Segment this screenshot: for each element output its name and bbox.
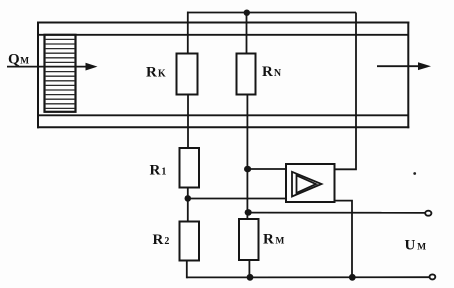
wire R1 bottom lead	[187, 188, 189, 199]
wire amp feedback to bridge top	[335, 13, 357, 170]
duct left wall	[37, 22, 39, 129]
flow-in arrow	[7, 63, 98, 71]
resistor RM	[239, 219, 259, 260]
svg-text:QM: QM	[8, 52, 29, 68]
duct inner bottom wall	[38, 114, 408, 116]
wire RN bottom to RM	[246, 95, 248, 220]
ink speck	[413, 172, 416, 175]
flow-out arrow	[377, 62, 431, 70]
resistor R2	[180, 222, 200, 261]
svg-text:RK: RK	[146, 65, 166, 81]
node bridge-top / RN	[244, 10, 250, 16]
resistor R1	[180, 148, 200, 188]
svg-text:R1: R1	[150, 163, 167, 179]
svg-text:UM: UM	[405, 238, 427, 254]
wire bridge top rail	[187, 12, 356, 14]
node RM bottom	[247, 274, 254, 281]
node RM top / output tap	[245, 209, 252, 216]
duct outer top wall	[37, 22, 409, 24]
flow screen (hatched grid)	[45, 35, 76, 112]
resistor RN	[237, 54, 256, 95]
wire amp upper input	[248, 168, 286, 170]
wire R2 top lead	[187, 199, 189, 222]
duct right wall	[407, 22, 409, 129]
svg-text:RN: RN	[262, 64, 282, 80]
node amp output to bottom rail	[349, 274, 356, 281]
wire bottom rail	[187, 276, 430, 278]
resistor RK	[177, 54, 198, 95]
terminal lower output	[430, 274, 436, 279]
node R1-R2 junction	[185, 195, 192, 202]
terminal upper output	[425, 211, 431, 216]
wire amp output	[335, 201, 353, 279]
duct inner top wall	[38, 34, 408, 36]
svg-text:R2: R2	[153, 232, 170, 248]
wire RM bottom lead	[248, 260, 250, 278]
svg-text:RM: RM	[263, 232, 284, 248]
wire RK top lead	[187, 12, 189, 54]
duct outer bottom wall	[37, 126, 409, 128]
wire bridge diagonal to amp lower input	[188, 198, 286, 200]
wire R2 bottom lead	[186, 261, 188, 279]
wire RK bottom to R1	[187, 95, 189, 149]
wire output upper rail	[248, 212, 425, 214]
node amp upper input tap	[244, 166, 251, 173]
amplifier U1	[286, 164, 335, 202]
wire RN top lead	[246, 13, 248, 54]
